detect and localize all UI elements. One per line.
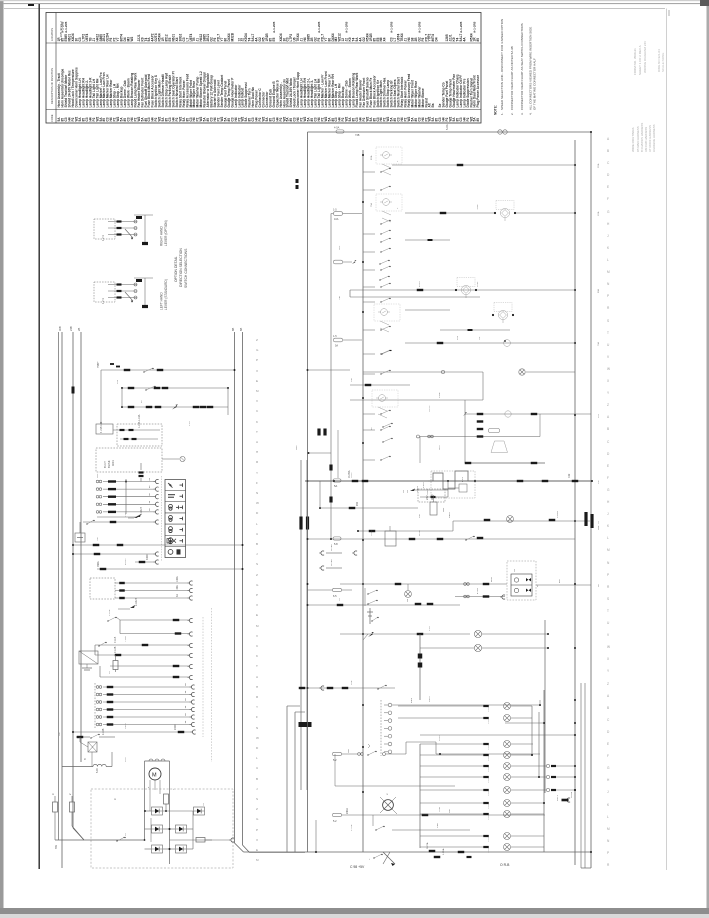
- svg-text:A-1-2R5: A-1-2R5: [417, 21, 421, 33]
- svg-text:O-1O: O-1O: [419, 530, 421, 536]
- staircase dots: [447, 480, 476, 482]
- svg-text:1-2R5 4C21-J: 1-2R5 4C21-J: [59, 21, 63, 40]
- interpanel wire 4: [306, 460, 309, 790]
- scan edge bottom white: [0, 914, 709, 918]
- starter motor box: [145, 759, 176, 864]
- svg-text:2-16UT: 2-16UT: [140, 506, 143, 515]
- svg-text:O-9B: O-9B: [439, 806, 441, 812]
- svg-text:E: E: [607, 185, 609, 189]
- interpanel wire 3: [299, 460, 302, 790]
- svg-text:SOL: SOL: [339, 245, 341, 250]
- svg-text:F: F: [256, 715, 258, 719]
- svg-text:S: S: [607, 597, 609, 601]
- left stub 553: [319, 544, 357, 556]
- wire arrow 2-16UT: [97, 506, 143, 517]
- svg-text:LEVER (OPTION): LEVER (OPTION): [164, 220, 168, 246]
- svg-text:1 2 3: 1 2 3: [101, 235, 105, 241]
- right end labels: [597, 163, 600, 587]
- note 4: [529, 27, 537, 115]
- svg-text:L: L: [607, 258, 609, 262]
- svg-text:DIRECTION SELECTION: DIRECTION SELECTION: [179, 248, 183, 287]
- connector row group lower: [95, 683, 195, 728]
- left bus wire 2: [73, 332, 84, 840]
- svg-text:A ENGINE HARNESS: A ENGINE HARNESS: [652, 124, 656, 152]
- svg-text:P: P: [256, 358, 258, 362]
- relay group 4: [376, 395, 388, 418]
- legend row line 1: [46, 42, 481, 44]
- left bus wire 1: [61, 332, 63, 868]
- svg-text:4-5A: 4-5A: [334, 127, 340, 130]
- svg-text:2400: 2400: [174, 724, 177, 730]
- svg-text:4.: 4.: [529, 112, 533, 115]
- key switch box: [96, 421, 113, 434]
- wire long feed 545: [72, 544, 244, 546]
- svg-text:Plug Power Accessor: Plug Power Accessor: [476, 74, 480, 107]
- svg-text:3O2: 3O2: [598, 525, 600, 530]
- svg-text:4001: 4001: [111, 460, 115, 466]
- wire in box A: [120, 438, 158, 440]
- bottom main wire: [55, 836, 234, 849]
- wire 2-16UT labels: [118, 597, 138, 609]
- diode D3: [152, 825, 163, 833]
- svg-text:O-7R5: O-7R5: [331, 559, 333, 566]
- svg-text:A-1-2R5: A-1-2R5: [459, 21, 463, 33]
- svg-text:2-10B: 2-10B: [102, 728, 105, 735]
- relay box 505: [430, 495, 445, 515]
- svg-text:1-6O5: 1-6O5: [488, 706, 490, 712]
- svg-text:3OA: 3OA: [597, 163, 600, 168]
- svg-text:24B: 24B: [69, 326, 73, 331]
- svg-text:1-OB: 1-OB: [439, 392, 441, 398]
- capacitor branch: [75, 522, 85, 542]
- right rail outer left: [307, 132, 309, 852]
- option detail right-hand lever circuit: [94, 215, 153, 245]
- svg-text:5OO: 5OO: [125, 757, 127, 762]
- svg-text:L: L: [607, 815, 609, 819]
- wire r213: [405, 212, 575, 214]
- starter drop resistor: [164, 794, 169, 811]
- bottom text 866: [350, 863, 510, 869]
- wire r385: [350, 384, 410, 386]
- wire r290: [350, 278, 575, 299]
- svg-text:B: B: [256, 542, 258, 546]
- option detail right-hand lever label: [160, 220, 169, 246]
- svg-text:4O5O: 4O5O: [419, 281, 421, 287]
- svg-text:7-11B: 7-11B: [125, 636, 127, 642]
- wire 539: [308, 526, 576, 546]
- svg-text:F: F: [607, 476, 609, 480]
- title block text: [633, 41, 647, 75]
- dashed vertical 211: [211, 608, 213, 762]
- stub wire 240: [405, 239, 450, 241]
- relay box K1: [79, 651, 98, 670]
- svg-text:F: F: [607, 197, 609, 201]
- svg-text:FUEL: FUEL: [477, 281, 479, 287]
- diode D5: [152, 845, 163, 853]
- top feed wire: [296, 124, 593, 189]
- cluster dashed box B: [96, 448, 162, 472]
- svg-text:940: 940: [356, 501, 359, 506]
- svg-text:75A: 75A: [370, 203, 373, 207]
- svg-text:OF THE MATING CONNECTOR HALF: OF THE MATING CONNECTOR HALF: [533, 58, 537, 110]
- outer frame top line: [4, 8, 665, 10]
- svg-text:O-O5: O-O5: [351, 472, 353, 478]
- lamp 370: [308, 369, 576, 375]
- svg-text:BLINK: BLINK: [107, 460, 111, 468]
- svg-text:C 98 +5V: C 98 +5V: [350, 865, 365, 869]
- svg-text:E: E: [256, 379, 258, 383]
- svg-text:85: 85: [476, 118, 480, 122]
- svg-text:1-5O: 1-5O: [429, 626, 431, 631]
- svg-text:1-4B5: 1-4B5: [417, 485, 419, 492]
- row370 label marks: [110, 363, 120, 367]
- svg-text:14OO: 14OO: [449, 512, 451, 518]
- right rail right 581: [580, 683, 582, 868]
- svg-text:E: E: [607, 464, 609, 468]
- wire 655: [95, 645, 193, 658]
- heavy left border: [38, 4, 40, 869]
- svg-text:WIRING DIAGRAM 24V: WIRING DIAGRAM 24V: [643, 41, 647, 73]
- svg-text:4-7R5: 4-7R5: [477, 587, 479, 594]
- labels O2 stack: [403, 485, 419, 493]
- svg-text:W: W: [607, 367, 610, 371]
- svg-text:Z: Z: [256, 573, 258, 577]
- diode D1: [152, 807, 163, 815]
- wire ignition feed: [97, 363, 236, 373]
- svg-text:1-6O5: 1-6O5: [488, 814, 490, 820]
- svg-text:LOCATION: LOCATION: [50, 28, 54, 41]
- wire key out: [113, 414, 160, 431]
- svg-text:O-1O: O-1O: [371, 530, 373, 536]
- left drop wires: [92, 752, 112, 767]
- svg-text:2O: 2O: [125, 833, 127, 836]
- svg-text:SCALE NONE: SCALE NONE: [661, 53, 665, 72]
- svg-text:P: P: [607, 851, 609, 855]
- svg-text:1-4B: 1-4B: [437, 823, 439, 828]
- svg-text:LEFT HAND: LEFT HAND: [160, 292, 164, 310]
- svg-text:A-1-2R5: A-1-2R5: [390, 21, 394, 33]
- svg-text:1-1O: 1-1O: [189, 421, 191, 426]
- svg-text:5A: 5A: [335, 345, 338, 348]
- svg-text:1O5O: 1O5O: [439, 735, 441, 741]
- svg-text:94OO: 94OO: [429, 696, 431, 702]
- wire 830: [392, 823, 470, 830]
- svg-text:CODE: CODE: [50, 114, 54, 122]
- diode matrix dashed box: [91, 789, 233, 868]
- svg-text:E: E: [256, 848, 258, 852]
- svg-text:M: M: [607, 827, 610, 831]
- diode D4: [176, 825, 187, 833]
- svg-text:Z: Z: [607, 682, 609, 686]
- svg-text:1-6O5: 1-6O5: [488, 755, 490, 761]
- svg-text:6B: 6B: [239, 328, 243, 331]
- box 436 left edge: [419, 437, 421, 464]
- svg-text:M: M: [256, 858, 259, 862]
- svg-text:T: T: [256, 430, 258, 434]
- left bus top labels: [58, 326, 81, 393]
- right rail right 585: [584, 683, 586, 868]
- svg-text:B.O.T: B.O.T: [103, 461, 107, 468]
- svg-text:E: E: [607, 742, 609, 746]
- svg-text:H: H: [256, 450, 258, 454]
- bottom left resistor 1: [51, 793, 58, 840]
- svg-text:1-10A 1-10A: 1-10A 1-10A: [138, 414, 141, 428]
- svg-text:Z: Z: [256, 807, 258, 811]
- svg-text:FORM NO. 3590-21: FORM NO. 3590-21: [633, 48, 637, 75]
- svg-text:1-6O5: 1-6O5: [488, 790, 490, 796]
- svg-text:A-1-2R5: A-1-2R5: [317, 21, 321, 33]
- svg-text:O7O2: O7O2: [571, 791, 573, 798]
- switch group 222: [380, 220, 390, 243]
- switch column left: [363, 168, 391, 461]
- svg-text:Y: Y: [256, 471, 258, 475]
- svg-text:P: P: [607, 573, 609, 577]
- svg-text:79-P5: 79-P5: [427, 488, 429, 495]
- svg-text:SHEET 1 OF 2 REV A: SHEET 1 OF 2 REV A: [638, 45, 642, 75]
- scan speck top-left: [28, 4, 34, 6]
- svg-text:7MU: 7MU: [97, 361, 99, 366]
- grid letters right column: [607, 137, 610, 867]
- svg-text:1-7OB: 1-7OB: [351, 824, 353, 831]
- svg-text:N: N: [256, 726, 258, 730]
- svg-text:9B-B: 9B-B: [491, 576, 493, 582]
- cluster dashed box A: [117, 424, 162, 446]
- svg-text:2-16: 2-16: [125, 512, 127, 517]
- right bus top labels: [231, 328, 243, 331]
- svg-text:4000: 4000: [146, 554, 149, 560]
- wire routings legend: [631, 123, 656, 152]
- svg-text:1-5: 1-5: [333, 209, 337, 212]
- svg-text:E: E: [256, 613, 258, 617]
- wire 562: [135, 554, 159, 564]
- svg-text:6.5: 6.5: [333, 595, 337, 598]
- stub wire 330: [440, 329, 510, 331]
- wire loop 372: [363, 370, 483, 400]
- svg-text:A-1-2R5: A-1-2R5: [64, 21, 68, 33]
- right bus wire 2: [243, 332, 250, 853]
- svg-text:LMP: LMP: [97, 473, 99, 478]
- svg-text:1-6O5: 1-6O5: [488, 766, 490, 772]
- svg-text:88A: 88A: [597, 289, 600, 293]
- svg-text:Z: Z: [607, 403, 609, 407]
- svg-text:1-O5O: 1-O5O: [557, 511, 559, 518]
- svg-text:A-1-2R5: A-1-2R5: [272, 21, 276, 33]
- scan edge top: [0, 0, 709, 4]
- svg-text:X: X: [256, 838, 258, 842]
- switch row 735: [76, 728, 115, 738]
- svg-text:94O: 94O: [419, 514, 421, 518]
- svg-text:B: B: [607, 427, 609, 431]
- wire 554: [72, 552, 159, 556]
- svg-text:74B: 74B: [355, 134, 360, 137]
- svg-text:O2 O2: O2 O2: [429, 405, 431, 412]
- svg-text:O-7R5: O-7R5: [331, 544, 333, 551]
- fuse box small: [80, 737, 97, 760]
- legend row line 2: [46, 109, 481, 111]
- svg-text:79A: 79A: [597, 342, 600, 346]
- scattered wire labels right panel: [339, 155, 481, 831]
- feed wire 481: [305, 470, 593, 488]
- svg-text:34O: 34O: [351, 378, 353, 382]
- svg-text:5.2: 5.2: [333, 820, 337, 823]
- legend table frame: [46, 13, 481, 124]
- left stub 568: [319, 559, 342, 571]
- svg-text:24V: 24V: [425, 495, 429, 500]
- switch group 425: [382, 423, 392, 443]
- note 3: [520, 23, 524, 115]
- trapezoid 444: [491, 441, 508, 453]
- svg-text:P: P: [256, 593, 258, 597]
- wire r165: [392, 164, 575, 166]
- wire r463: [465, 462, 545, 464]
- wire r436: [417, 414, 541, 438]
- svg-text:1-6O5: 1-6O5: [488, 744, 490, 750]
- wire 620: [107, 617, 192, 623]
- label stack 480: [477, 420, 484, 430]
- svg-text:F42: F42: [568, 473, 571, 478]
- wire 633: [120, 620, 193, 636]
- stub wire 310: [405, 309, 450, 311]
- svg-text:5.8: 5.8: [334, 542, 338, 546]
- note 1: [500, 19, 504, 115]
- svg-text:1-6O5: 1-6O5: [488, 836, 490, 842]
- wire r343: [405, 340, 575, 347]
- svg-text:1.: 1.: [500, 112, 504, 115]
- wire 503: [319, 481, 418, 509]
- svg-text:788A: 788A: [97, 561, 100, 567]
- svg-text:4A: 4A: [462, 37, 466, 42]
- svg-text:3O: 3O: [109, 671, 111, 674]
- right bus wire 1: [235, 332, 244, 852]
- svg-text:7-11B: 7-11B: [114, 636, 117, 643]
- svg-text:DESCRIPTION OF FUNCTION: DESCRIPTION OF FUNCTION: [50, 68, 54, 104]
- svg-text:8B: 8B: [231, 328, 235, 331]
- svg-text:O R-B: O R-B: [500, 863, 510, 867]
- relay group dashed box 3: [374, 304, 400, 321]
- cap row: [139, 463, 144, 482]
- svg-text:U: U: [256, 766, 258, 770]
- svg-text:85: 85: [476, 38, 480, 42]
- svg-text:W: W: [256, 736, 259, 740]
- svg-text:OPTION DETAIL: OPTION DETAIL: [174, 256, 178, 282]
- svg-text:U: U: [256, 532, 258, 536]
- svg-text:3O8: 3O8: [296, 445, 298, 450]
- svg-text:S: S: [256, 562, 258, 566]
- svg-text:M: M: [152, 773, 157, 779]
- instrument cluster box: [162, 476, 186, 561]
- lamp 634: [474, 630, 549, 637]
- svg-text:3.: 3.: [520, 112, 524, 115]
- svg-text:P: P: [256, 828, 258, 832]
- svg-text:M: M: [607, 548, 610, 552]
- lamp ladder: [398, 703, 576, 854]
- rail marks 452: [308, 430, 339, 503]
- svg-text:24OO: 24OO: [125, 723, 127, 729]
- svg-text:L: L: [256, 756, 258, 760]
- fuse oval 430: [489, 429, 500, 433]
- svg-text:L: L: [256, 522, 258, 526]
- svg-text:B: B: [607, 706, 609, 710]
- svg-text:M: M: [256, 389, 259, 393]
- right rail dots: [307, 154, 577, 793]
- svg-text:W: W: [256, 501, 259, 505]
- svg-text:SWITCH CONNECTIONS: SWITCH CONNECTIONS: [184, 248, 188, 288]
- svg-text:Z: Z: [256, 338, 258, 342]
- coil wire 765: [62, 764, 112, 773]
- diode links: [144, 810, 193, 850]
- svg-text:5A: 5A: [334, 484, 337, 488]
- interpanel wire 2: [295, 712, 305, 852]
- scan corner top-right: [700, 0, 709, 6]
- svg-text:N: N: [256, 491, 258, 495]
- diode D2: [194, 807, 205, 815]
- wire horn switch: [83, 520, 159, 525]
- svg-text:T: T: [256, 664, 258, 668]
- wire r400: [350, 392, 483, 463]
- svg-text:1-978: 1-978: [423, 482, 425, 488]
- wire 688: [299, 685, 395, 690]
- relay group dashed box 4: [372, 390, 398, 407]
- svg-text:T: T: [607, 609, 609, 613]
- svg-text:30A: 30A: [176, 585, 179, 590]
- scan edge left: [0, 0, 4, 918]
- scan edge bottom band: [0, 908, 709, 914]
- svg-text:M: M: [607, 270, 610, 274]
- svg-text:HRS: HRS: [439, 445, 441, 450]
- gauge g315: [492, 303, 514, 324]
- gauge g213: [494, 201, 516, 222]
- svg-text:1-6O5: 1-6O5: [488, 718, 490, 724]
- title block text 2: [657, 49, 665, 72]
- flasher output wires: [115, 576, 193, 600]
- box 489: [418, 489, 445, 502]
- svg-text:H-P5: H-P5: [462, 476, 464, 482]
- wire row 754: [333, 742, 541, 762]
- wire 605: [308, 598, 461, 606]
- flasher lamp special: [369, 792, 397, 860]
- lamp box B: [162, 456, 185, 461]
- switch pair 592: [365, 588, 378, 606]
- svg-text:F: F: [256, 481, 258, 485]
- svg-text:TEMP: TEMP: [477, 203, 479, 210]
- svg-text:1-5: 1-5: [333, 335, 337, 338]
- svg-text:94OA: 94OA: [346, 808, 349, 814]
- svg-text:30B: 30B: [58, 326, 62, 331]
- svg-text:LEVER (STANDARD): LEVER (STANDARD): [164, 279, 168, 310]
- svg-text:1-6O5: 1-6O5: [488, 803, 490, 809]
- svg-text:P: P: [607, 294, 609, 298]
- svg-text:X4: X4: [383, 37, 387, 41]
- svg-text:2.: 2.: [510, 112, 514, 115]
- svg-text:1-6O5: 1-6O5: [488, 777, 490, 783]
- svg-text:Ba: Ba: [431, 103, 435, 107]
- wire 645: [95, 636, 193, 647]
- wire 596: [455, 587, 505, 599]
- wire 634: [340, 632, 470, 640]
- svg-text:CONNECTOR VIEW CHART AS SEAT S: CONNECTOR VIEW CHART AS SEAT SWITCH CONN…: [520, 23, 524, 110]
- svg-text:W: W: [607, 645, 610, 649]
- harness box 563: [507, 561, 536, 600]
- rail fuse 214: [331, 209, 362, 541]
- svg-text:M32B: M32B: [230, 32, 234, 41]
- svg-text:B: B: [607, 149, 609, 153]
- legend header column line: [55, 13, 57, 124]
- wire 735: [420, 734, 576, 736]
- svg-text:RIGHT HAND: RIGHT HAND: [160, 226, 164, 246]
- relay group 2: [380, 199, 392, 222]
- svg-text:B: B: [256, 777, 258, 781]
- diode D6: [176, 845, 187, 853]
